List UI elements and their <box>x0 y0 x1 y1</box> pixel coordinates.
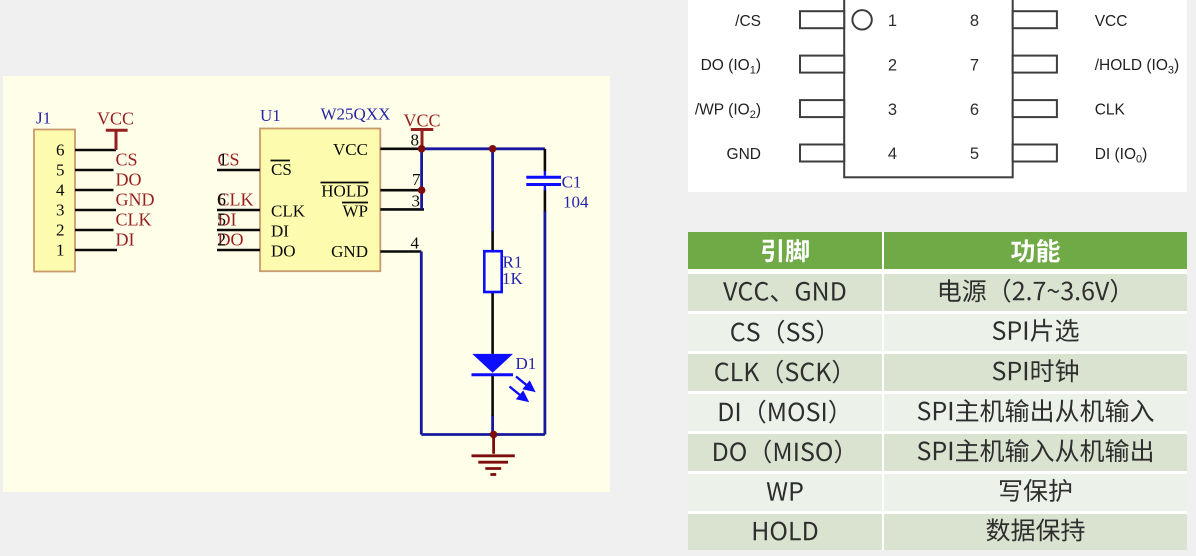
junction at R1 branch <box>489 145 497 153</box>
svg-text:1: 1 <box>56 241 65 260</box>
wire U1 pin 1 CS <box>217 169 260 172</box>
wire R1 branch upper <box>491 149 494 231</box>
wire J1 pin 4 net DO <box>75 189 114 192</box>
DIP pin 1 pad <box>800 11 844 28</box>
svg-text:3: 3 <box>56 201 65 220</box>
DIP pin 8 pad <box>1013 11 1057 28</box>
svg-text:4: 4 <box>888 145 897 163</box>
svg-text:1: 1 <box>888 12 897 30</box>
capacitor C1 <box>526 171 561 191</box>
svg-text:4: 4 <box>56 181 65 200</box>
wire J1 pin 3 net GND <box>75 209 116 212</box>
J1 pin numbers <box>56 141 65 260</box>
svg-text:VCC: VCC <box>333 140 368 159</box>
svg-text:/WP (IO2): /WP (IO2) <box>695 102 761 122</box>
svg-text:2: 2 <box>56 221 65 240</box>
svg-text:CS: CS <box>116 150 138 170</box>
junction at ground rail <box>490 431 498 439</box>
svg-text:GND: GND <box>331 242 368 261</box>
svg-text:DI: DI <box>116 230 135 250</box>
wire U1 pin 6 CLK <box>217 209 260 212</box>
svg-text:6: 6 <box>56 141 65 160</box>
svg-text:1: 1 <box>219 150 228 170</box>
LED D1 <box>472 354 534 401</box>
svg-text:VCC: VCC <box>97 109 134 129</box>
power VCC symbol (J1) <box>106 130 128 150</box>
wire VCC down to WP pin <box>420 149 423 210</box>
svg-text:8: 8 <box>970 12 979 30</box>
U1 pin name HOLD <box>321 182 369 201</box>
svg-text:4: 4 <box>411 234 420 253</box>
U1 pin name CS <box>271 160 292 179</box>
svg-text:7: 7 <box>970 56 979 74</box>
wire D1 cathode lower <box>491 416 494 435</box>
svg-text:DO: DO <box>271 242 296 261</box>
pin 1 indicator circle <box>852 10 871 29</box>
svg-text:8: 8 <box>411 131 420 150</box>
wire J1 pin 1 net DI <box>75 249 117 252</box>
svg-text:3: 3 <box>888 101 897 119</box>
svg-text:6: 6 <box>970 101 979 119</box>
wire C1 lower to ground rail <box>544 211 547 435</box>
svg-text:CLK: CLK <box>116 210 152 230</box>
svg-text:WP: WP <box>343 202 369 221</box>
wire U1 pin 8 VCC <box>380 148 421 151</box>
power VCC symbol (U1) <box>411 130 434 149</box>
svg-text:VCC: VCC <box>1095 13 1128 30</box>
svg-text:2: 2 <box>217 230 226 250</box>
svg-text:VCC: VCC <box>403 111 440 131</box>
DIP pin 5 pad <box>1013 145 1057 162</box>
lead C1 upper <box>544 149 547 171</box>
svg-text:D1: D1 <box>516 354 537 373</box>
wire GND pin 4 down <box>420 252 423 435</box>
svg-text:6: 6 <box>217 190 226 210</box>
svg-text:DI: DI <box>271 222 289 241</box>
svg-text:C1: C1 <box>562 173 582 192</box>
connector J1 body <box>34 130 75 272</box>
DIP pin 7 pad <box>1013 56 1057 73</box>
wire J1 pin 5 net CS <box>75 169 114 172</box>
svg-text:5: 5 <box>56 161 65 180</box>
svg-text:/CS: /CS <box>735 13 761 30</box>
U1 pin name WP <box>342 202 368 221</box>
wire U1 pin 7 HOLD <box>380 189 421 192</box>
DIP pin 2 pad <box>800 56 844 73</box>
svg-text:J1: J1 <box>36 109 51 128</box>
DIP pin 4 pad <box>800 145 844 162</box>
svg-text:DO (IO1): DO (IO1) <box>701 57 761 77</box>
svg-text:7: 7 <box>412 170 421 189</box>
svg-text:/HOLD (IO3): /HOLD (IO3) <box>1095 57 1180 77</box>
svg-text:5: 5 <box>970 145 979 163</box>
svg-text:CS: CS <box>271 160 292 179</box>
junction at U1 pin 8 <box>418 145 426 153</box>
IC U1 body <box>260 129 380 272</box>
svg-text:5: 5 <box>217 210 226 230</box>
svg-text:CLK: CLK <box>271 202 306 221</box>
wire U1 pin 5 DI <box>217 229 260 232</box>
junction at U1 pin 7 <box>418 186 426 194</box>
svg-text:3: 3 <box>412 192 421 211</box>
svg-text:2: 2 <box>888 56 897 74</box>
wire U1 pin 3 WP <box>380 208 424 211</box>
ground symbol <box>472 435 515 475</box>
svg-text:GND: GND <box>116 190 155 210</box>
wire J1 pin 2 net CLK <box>75 229 114 232</box>
wire U1 pin 2 DO <box>217 249 260 252</box>
svg-text:DI (IO0): DI (IO0) <box>1095 146 1148 166</box>
resistor R1 <box>484 251 501 292</box>
wire ground rail bottom <box>421 433 545 436</box>
svg-text:U1: U1 <box>260 106 281 125</box>
svg-text:104: 104 <box>563 193 589 212</box>
lead C1 lower <box>544 190 547 212</box>
lead R1 bottom to D1 <box>491 292 494 354</box>
DIP pin 6 pad <box>1013 100 1057 117</box>
svg-text:1K: 1K <box>502 269 524 288</box>
svg-text:GND: GND <box>727 146 761 163</box>
svg-text:W25QXX: W25QXX <box>321 105 391 124</box>
lead D1 cathode <box>491 376 494 416</box>
wire VCC rail horizontal <box>422 147 545 150</box>
svg-text:HOLD: HOLD <box>321 182 368 201</box>
lead R1 top <box>491 231 494 251</box>
DIP-8 package body <box>844 0 1013 177</box>
svg-text:DO: DO <box>116 170 142 190</box>
svg-text:CLK: CLK <box>1095 102 1126 119</box>
wire U1 pin 4 GND <box>380 250 421 253</box>
DIP pin 3 pad <box>800 100 844 117</box>
wire J1 pin 6 to VCC <box>75 149 116 152</box>
